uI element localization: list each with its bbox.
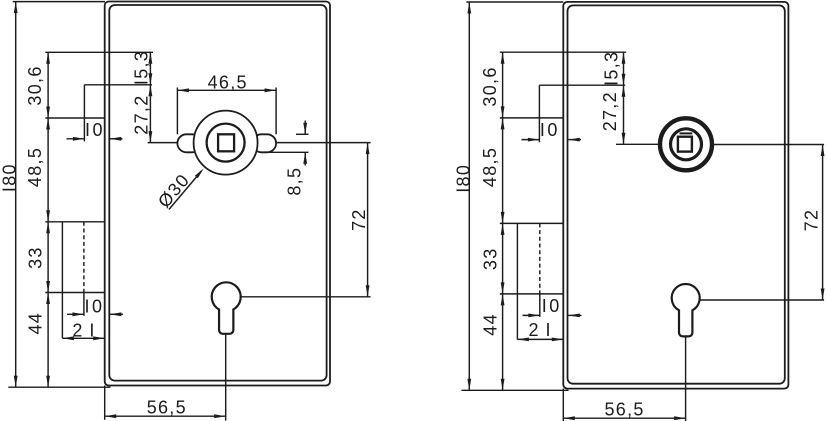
right dim 10 top — [522, 120, 582, 142]
right view lock case outer outline — [563, 2, 788, 389]
svg-text:33: 33 — [26, 246, 46, 269]
right view euro profile keyhole — [672, 284, 700, 336]
right dim 21 — [517, 320, 563, 341]
svg-text:30,6: 30,6 — [25, 65, 45, 105]
svg-text:44: 44 — [26, 312, 46, 335]
left view follower right ear slot — [252, 134, 276, 152]
left view euro profile keyhole — [212, 282, 241, 334]
left dim 46,5 — [177, 73, 276, 93]
left ext line plane B — [45, 117, 104, 119]
left view follower inner circle — [207, 124, 245, 162]
right dim 48,5 — [480, 118, 505, 223]
left view lock case outer outline — [105, 2, 330, 386]
left dim 27,2 — [132, 85, 153, 143]
svg-text:I0: I0 — [542, 296, 562, 316]
left dim 10 top extension — [83, 85, 85, 142]
right view spindle square hole — [678, 137, 692, 152]
right dim 44 — [480, 294, 504, 390]
left dim 8,5 ext top — [296, 133, 309, 135]
right ext line plane A — [500, 51, 626, 53]
svg-text:33: 33 — [480, 247, 500, 270]
right dim 72 — [801, 145, 824, 301]
right dim 56,5 — [563, 399, 685, 420]
right ext keyhole centre to 72 — [700, 299, 824, 301]
left dim 10 bottom — [67, 296, 123, 316]
left view keyhole centerline — [225, 335, 227, 421]
svg-text:27,2: 27,2 — [600, 91, 620, 131]
left dim 46,5 extension right — [275, 88, 277, 135]
right dim 180 — [453, 2, 473, 390]
svg-text:I0: I0 — [85, 120, 105, 140]
right ext line plane C — [500, 222, 564, 224]
left ext follower centre to 72 — [276, 142, 371, 144]
svg-text:I0: I0 — [84, 296, 104, 316]
right dim 180 extension top — [466, 1, 563, 3]
right ext case edge below — [562, 389, 564, 421]
left view follower left ear slot — [177, 134, 201, 152]
left ext line plane D — [45, 292, 104, 294]
right ext line plane D — [500, 293, 564, 295]
svg-text:2I: 2I — [528, 320, 557, 340]
right ext line plane B — [500, 117, 564, 119]
svg-text:I80: I80 — [0, 163, 20, 192]
svg-text:30,6: 30,6 — [480, 66, 500, 106]
left view spindle square hole — [218, 134, 234, 151]
right construction line below D — [539, 294, 541, 317]
svg-text:56,5: 56,5 — [604, 399, 644, 419]
right dim 180 extension bottom — [462, 389, 569, 391]
right dim 10 bottom — [523, 296, 582, 318]
right construction line dashed — [539, 223, 541, 294]
left ext keyhole centre to 72 — [241, 296, 371, 298]
left dim 72 — [349, 143, 369, 297]
right dim 15,3 — [601, 51, 625, 86]
left dim 46,5 extension left — [176, 88, 178, 135]
svg-text:56,5: 56,5 — [147, 397, 187, 417]
right construction line solid — [516, 223, 518, 339]
svg-text:2I: 2I — [72, 321, 101, 341]
svg-text:44: 44 — [480, 313, 500, 336]
right dim 30,6 — [480, 52, 505, 118]
right ext follower centre to 27,2 — [616, 143, 660, 145]
left view follower outer circle (diameter 30) — [194, 111, 258, 175]
left ext follower centre to 27,2 — [148, 142, 178, 144]
svg-text:27,2: 27,2 — [132, 94, 152, 134]
svg-text:I80: I80 — [453, 164, 473, 193]
left dim 180 extension top — [13, 1, 105, 3]
svg-text:I5,3: I5,3 — [131, 50, 151, 85]
right view follower inner circle — [671, 129, 702, 160]
right view follower outer circle — [660, 118, 712, 170]
svg-text:48,5: 48,5 — [25, 147, 45, 187]
left leader diameter 30 — [154, 168, 204, 211]
right view follower slot detail — [680, 132, 693, 134]
left view lock case inner outline — [109, 5, 326, 381]
left dim 30,6 — [25, 52, 50, 118]
left ext line plane A — [45, 51, 153, 53]
svg-text:72: 72 — [801, 209, 821, 232]
svg-text:46,5: 46,5 — [208, 73, 248, 93]
right view keyhole centerline — [685, 337, 687, 421]
svg-text:I0: I0 — [540, 120, 560, 140]
left dim 15,3 — [131, 50, 152, 85]
left dim 180 extension bottom — [8, 386, 110, 388]
left construction line dashed — [83, 222, 85, 293]
svg-text:48,5: 48,5 — [480, 147, 500, 187]
svg-text:8,5: 8,5 — [285, 167, 305, 196]
svg-text:72: 72 — [349, 208, 369, 231]
left dim 8,5 — [285, 121, 308, 196]
left dim 21 — [62, 321, 104, 341]
left dim 180 — [0, 2, 20, 388]
svg-text:I5,3: I5,3 — [601, 51, 621, 86]
left dim 56,5 — [105, 397, 226, 418]
right dim 10 top extension — [538, 85, 540, 142]
left ext line plane C — [45, 221, 104, 223]
left construction line below D — [83, 293, 85, 316]
right dim 27,2 — [600, 85, 625, 144]
left dim 33 — [26, 222, 50, 293]
left dim 44 — [26, 293, 50, 388]
right dim 33 — [480, 223, 504, 294]
left construction line solid — [61, 222, 63, 338]
right ext line plane E — [539, 84, 625, 86]
right ext follower centre to 72 — [712, 144, 824, 146]
left ext case edge below — [104, 386, 106, 420]
right view lock case inner outline — [568, 5, 785, 383]
left dim 48,5 — [25, 118, 50, 222]
left dim 10 top — [67, 120, 123, 141]
left ext line plane E — [84, 84, 152, 86]
left dim 8,5 ext bottom — [264, 151, 309, 153]
